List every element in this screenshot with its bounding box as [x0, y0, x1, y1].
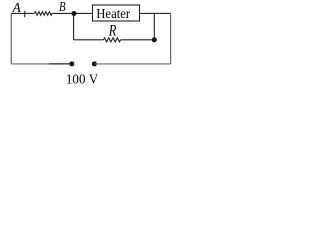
- wire: bottom rail left segment: [11, 63, 49, 65]
- wire: vertical from top rail down to R junction: [153, 13, 155, 39]
- junction dot at R right: [152, 37, 157, 42]
- heater box U1: [93, 5, 140, 21]
- wire: bottom rail right segment: [94, 63, 170, 65]
- wire: top rail from A corner to heater: [11, 12, 34, 14]
- battery terminal dot right: [92, 61, 97, 66]
- resistor R: [104, 38, 121, 42]
- battery terminal dot left: [69, 61, 74, 66]
- tick mark at A terminal: [24, 11, 26, 17]
- svg-text:100 V: 100 V: [66, 72, 98, 87]
- wire: R right lead to junction: [121, 39, 155, 41]
- resistor between A and B: [35, 12, 53, 16]
- wire: heater right side to top-right corner: [140, 12, 171, 14]
- svg-text:R: R: [108, 23, 117, 40]
- svg-text:Heater: Heater: [96, 7, 130, 22]
- wire: right rail: [170, 13, 172, 64]
- svg-text:A: A: [12, 0, 22, 15]
- wire: R branch left lead: [74, 39, 104, 41]
- svg-text:B: B: [59, 0, 66, 14]
- wire: vertical from node B down to R branch: [73, 13, 75, 39]
- wire: battery left lead: [49, 63, 72, 65]
- wire: left rail: [10, 13, 12, 64]
- junction dot at node B: [72, 11, 77, 16]
- wire: resistor to heater box: [52, 12, 92, 14]
